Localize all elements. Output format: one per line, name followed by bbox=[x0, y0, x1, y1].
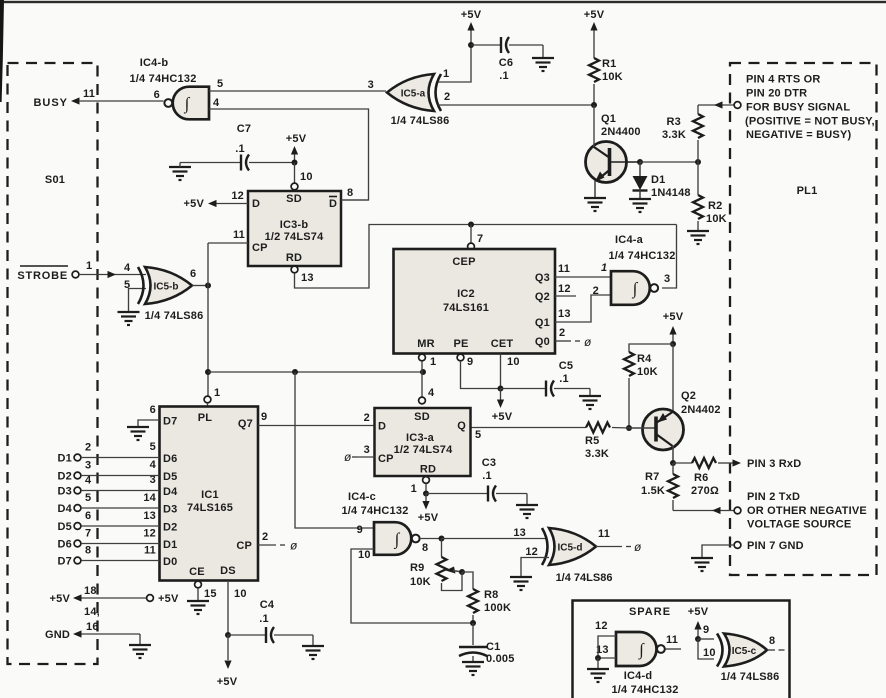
svg-text:R8: R8 bbox=[484, 589, 498, 601]
svg-text:9: 9 bbox=[703, 624, 709, 636]
svg-text:100K: 100K bbox=[484, 602, 511, 614]
svg-text:Q1: Q1 bbox=[601, 113, 616, 125]
wire clock bus vertical bbox=[207, 243, 209, 396]
nand gate IC4-c bbox=[374, 522, 420, 555]
wire D5 to IC1 bbox=[81, 525, 160, 527]
svg-text:D1: D1 bbox=[58, 453, 72, 465]
wire IC5-b output bbox=[192, 285, 208, 287]
svg-text:.1: .1 bbox=[259, 613, 269, 625]
svg-text:IC4-c: IC4-c bbox=[348, 491, 376, 503]
transistor Q1 2N4400 bbox=[586, 105, 641, 198]
wire node to R2 bbox=[697, 162, 699, 195]
wire ground stem C5 bbox=[589, 389, 591, 397]
svg-text:RD: RD bbox=[420, 464, 436, 476]
wire STROBE to IC5-b pin 4 bbox=[79, 274, 146, 276]
terminal PIN4 RTS bbox=[734, 102, 741, 109]
svg-text:D5: D5 bbox=[163, 471, 177, 483]
svg-text:9: 9 bbox=[467, 356, 473, 368]
svg-text:11: 11 bbox=[233, 229, 245, 241]
svg-text:FOR BUSY SIGNAL: FOR BUSY SIGNAL bbox=[746, 102, 850, 114]
resistor R6 bbox=[692, 458, 716, 468]
svg-text:SD: SD bbox=[414, 411, 430, 423]
wire to CEP pin 7 bbox=[470, 225, 472, 244]
wire Q3 pin11 to IC4-a pin1 bbox=[555, 276, 611, 278]
svg-text:.1: .1 bbox=[235, 143, 245, 155]
terminal D7 bbox=[74, 557, 81, 564]
wire C5 to ground bbox=[554, 388, 590, 390]
svg-text:16: 16 bbox=[86, 621, 99, 633]
R9 wiper arm bbox=[446, 567, 463, 574]
ground at CE bbox=[187, 601, 209, 614]
diode D1 1N4148 bbox=[633, 162, 648, 199]
wire D7 to ground bbox=[138, 420, 160, 427]
svg-text:14: 14 bbox=[143, 492, 156, 504]
svg-text:+5V: +5V bbox=[184, 198, 205, 210]
arrow +5V SD bbox=[291, 146, 298, 155]
svg-text:IC1: IC1 bbox=[201, 489, 219, 501]
wire CP pin3 stub bbox=[357, 456, 375, 458]
ground at C7 bbox=[169, 167, 191, 180]
wire +5V pin18 bbox=[82, 597, 147, 599]
wire CP pin2 stub bbox=[258, 544, 276, 546]
wire R4 to base bbox=[628, 378, 630, 428]
wire CE to ground bbox=[197, 588, 199, 601]
svg-text:5: 5 bbox=[150, 441, 156, 453]
resistor R9 (trimmer) bbox=[437, 557, 447, 581]
terminal STROBE bbox=[72, 271, 79, 278]
wire C1 to ground bbox=[472, 656, 474, 662]
ground at IC1 D7 bbox=[127, 427, 149, 440]
svg-text:D4: D4 bbox=[58, 503, 73, 515]
wire +5V down bbox=[672, 335, 674, 345]
wire to R7 bbox=[672, 463, 674, 474]
wire D4 to IC1 bbox=[81, 507, 160, 509]
svg-text:ø: ø bbox=[344, 450, 352, 464]
svg-text:13: 13 bbox=[558, 308, 571, 320]
arrow PIN3 RxD bbox=[733, 459, 742, 466]
svg-text:PL1: PL1 bbox=[797, 185, 818, 197]
svg-text:3.3K: 3.3K bbox=[662, 129, 686, 141]
wire phi dash IC3-a bbox=[352, 456, 357, 458]
svg-text:2: 2 bbox=[85, 442, 91, 454]
svg-text:1.5K: 1.5K bbox=[641, 485, 665, 497]
svg-text:1/4 74HC132: 1/4 74HC132 bbox=[129, 73, 196, 85]
pin 9 PE circle bbox=[457, 354, 464, 361]
junction wiper bbox=[459, 569, 465, 575]
pin 13 RD circle bbox=[291, 266, 298, 273]
arrow +5V D12 bbox=[208, 200, 217, 207]
svg-text:C7: C7 bbox=[237, 123, 251, 135]
wire IC5-d output bbox=[596, 546, 622, 548]
svg-text:1/4 74LS86: 1/4 74LS86 bbox=[556, 572, 613, 584]
junction reset/CEP bbox=[468, 222, 474, 228]
wire down to ground bbox=[542, 45, 544, 58]
svg-text:2N4400: 2N4400 bbox=[601, 126, 641, 138]
svg-text:D2: D2 bbox=[58, 471, 72, 483]
svg-text:D1: D1 bbox=[163, 539, 177, 551]
svg-text:18: 18 bbox=[84, 585, 97, 597]
svg-text:9: 9 bbox=[261, 411, 267, 423]
junction DS/C4 bbox=[225, 632, 231, 638]
svg-text:270Ω: 270Ω bbox=[691, 485, 719, 497]
xor gate IC5-a bbox=[387, 74, 441, 111]
capacitor C7 bbox=[241, 155, 249, 171]
svg-text:8: 8 bbox=[85, 545, 91, 557]
wire collector node to R3/R2 bbox=[640, 161, 698, 163]
pin 1 MR circle bbox=[419, 354, 426, 361]
wire to +5V arrow RD bbox=[425, 494, 427, 502]
svg-text:12: 12 bbox=[231, 190, 244, 202]
wire R7 down bbox=[672, 500, 674, 511]
svg-text:1/2 74LS74: 1/2 74LS74 bbox=[265, 231, 325, 243]
wire Q0 dash bbox=[575, 340, 580, 342]
junction Q1 collector node bbox=[637, 159, 643, 165]
svg-text:6: 6 bbox=[85, 510, 91, 522]
svg-text:RD: RD bbox=[286, 252, 302, 264]
wire horizontal to MR bbox=[208, 371, 423, 373]
svg-text:2: 2 bbox=[364, 412, 370, 424]
svg-text:10: 10 bbox=[234, 588, 247, 600]
wire node to C5 bbox=[501, 388, 546, 390]
svg-text:PIN 7 GND: PIN 7 GND bbox=[747, 540, 804, 552]
svg-text:9: 9 bbox=[357, 524, 363, 536]
wire +5V to node bbox=[470, 31, 472, 46]
svg-text:4: 4 bbox=[213, 97, 220, 109]
wire Q2 pin12 stub bbox=[555, 295, 576, 297]
xor gate IC5-c bbox=[717, 634, 767, 667]
wire Q7 pin9 to IC3-a D bbox=[258, 425, 375, 427]
connector S01 dashed box bbox=[8, 63, 98, 664]
wire R8 to node bbox=[472, 615, 474, 623]
wire to CP pin 11 bbox=[208, 242, 248, 244]
svg-text:R6: R6 bbox=[694, 472, 708, 484]
svg-text:D3: D3 bbox=[163, 504, 177, 516]
scan border top bar bbox=[4, 1, 886, 3]
wire +5V to R1 bbox=[593, 31, 595, 59]
resistor R5 bbox=[586, 423, 610, 433]
svg-text:2: 2 bbox=[559, 327, 565, 339]
resistor R4 bbox=[624, 352, 634, 376]
pin 1 RD circle bbox=[423, 477, 430, 484]
svg-text:PIN 20 DTR: PIN 20 DTR bbox=[746, 88, 807, 100]
wire R5 to base junction bbox=[612, 427, 629, 430]
svg-text:SPARE: SPARE bbox=[629, 606, 671, 618]
svg-text:1: 1 bbox=[430, 356, 436, 368]
ground at IC5-b pin5 bbox=[118, 312, 140, 325]
pin 10 SD circle bbox=[291, 183, 298, 190]
svg-text:1/4 74HC132: 1/4 74HC132 bbox=[341, 505, 408, 517]
ground at C4 bbox=[302, 646, 324, 659]
wire D3 to IC1 bbox=[81, 490, 160, 492]
svg-text:CET: CET bbox=[491, 338, 514, 350]
ground at C5 bbox=[579, 396, 601, 409]
svg-text:4: 4 bbox=[150, 459, 157, 471]
nand gate IC4-b bbox=[164, 87, 209, 120]
wire PE to +5V node bbox=[461, 361, 501, 389]
shift register IC1 74LS165 bbox=[160, 407, 259, 581]
wire Q1 pin13 to IC4-a pin2 bbox=[555, 295, 611, 322]
svg-text:Q2: Q2 bbox=[681, 390, 696, 402]
svg-text:5: 5 bbox=[85, 492, 91, 504]
svg-text:+5V: +5V bbox=[217, 676, 238, 688]
svg-text:1: 1 bbox=[214, 387, 220, 399]
svg-text:R2: R2 bbox=[708, 200, 722, 212]
wire to PIN2 TxD bbox=[673, 510, 734, 512]
capacitor C1 bbox=[459, 647, 487, 656]
svg-text:D4: D4 bbox=[163, 486, 178, 498]
svg-text:Q7: Q7 bbox=[238, 418, 253, 430]
resistor R2 bbox=[693, 195, 703, 219]
svg-text:Q1: Q1 bbox=[535, 317, 550, 329]
junction R8/C1 bbox=[470, 620, 476, 626]
wire R9 bottom to wiper bbox=[442, 572, 463, 591]
terminal PIN7 GND bbox=[734, 542, 741, 549]
wire IC5-c output dash bbox=[779, 649, 785, 651]
svg-text:5: 5 bbox=[217, 78, 223, 90]
svg-text:PE: PE bbox=[453, 338, 468, 350]
svg-text:13: 13 bbox=[143, 510, 156, 522]
wire MR to SD bbox=[421, 361, 423, 397]
svg-text:Q0: Q0 bbox=[535, 336, 550, 348]
svg-text:+5V: +5V bbox=[286, 133, 307, 145]
svg-text:S01: S01 bbox=[45, 174, 65, 186]
wire +5V to Q2 emitter bbox=[672, 344, 674, 411]
ground at S01 GND bbox=[129, 645, 151, 658]
ground at IC4-d bbox=[587, 669, 609, 682]
svg-text:ø: ø bbox=[634, 540, 642, 554]
terminal PIN2 TxD bbox=[734, 507, 741, 514]
transistor Q2 2N4402 bbox=[629, 409, 684, 463]
svg-text:1/2 74LS74: 1/2 74LS74 bbox=[394, 444, 454, 456]
STROBE overline bbox=[20, 265, 68, 267]
terminal +5V pin18 bbox=[147, 595, 154, 602]
resistor R8 bbox=[468, 589, 478, 613]
resistor R3 bbox=[693, 114, 703, 138]
arrow PIN2 TxD bbox=[712, 507, 721, 514]
svg-text:3: 3 bbox=[664, 273, 670, 285]
svg-text:D: D bbox=[329, 198, 337, 210]
svg-text:3: 3 bbox=[364, 444, 370, 456]
svg-text:R9: R9 bbox=[410, 562, 424, 574]
pin 15 CE circle bbox=[195, 581, 202, 588]
svg-text:12: 12 bbox=[143, 528, 156, 540]
wire node to C6 bbox=[471, 44, 500, 46]
junction IC5-b out bbox=[205, 283, 211, 289]
svg-text:1: 1 bbox=[86, 260, 92, 272]
svg-text:12: 12 bbox=[558, 283, 571, 295]
svg-text:10: 10 bbox=[507, 356, 520, 368]
svg-text:C5: C5 bbox=[559, 360, 573, 372]
svg-text:C1: C1 bbox=[486, 641, 500, 653]
svg-text:IC5-c: IC5-c bbox=[732, 646, 757, 657]
svg-text:+5V: +5V bbox=[584, 9, 605, 21]
arrow +5V DS bbox=[224, 661, 231, 670]
connector PL1 dashed box bbox=[730, 63, 877, 575]
svg-text:BUSY: BUSY bbox=[33, 97, 68, 109]
arrow +5V R1 bbox=[590, 22, 597, 31]
svg-text:13: 13 bbox=[301, 272, 314, 284]
junction C6 node bbox=[468, 42, 474, 48]
wire IC4-b pin4 to IC3-b pin8 bbox=[209, 109, 369, 200]
svg-text:CE: CE bbox=[189, 566, 205, 578]
svg-text:D2: D2 bbox=[163, 522, 177, 534]
svg-text:CP: CP bbox=[378, 453, 394, 465]
svg-text:0.005: 0.005 bbox=[486, 653, 515, 665]
arrow GND S01 bbox=[73, 630, 82, 637]
capacitor C3 bbox=[488, 486, 496, 502]
svg-text:2: 2 bbox=[444, 91, 450, 103]
wire R1 to node bbox=[593, 84, 595, 105]
svg-text:DS: DS bbox=[220, 565, 236, 577]
svg-text:CEP: CEP bbox=[452, 256, 475, 268]
wire IC5-d pin12 to ground bbox=[521, 558, 549, 578]
svg-text:STROBE: STROBE bbox=[17, 270, 68, 282]
svg-text:7: 7 bbox=[85, 528, 91, 540]
wire IC4-b pin5 to IC5-a pin3 bbox=[209, 90, 386, 92]
svg-text:D7: D7 bbox=[163, 416, 177, 428]
svg-text:R4: R4 bbox=[637, 353, 652, 365]
svg-text:8: 8 bbox=[347, 187, 353, 199]
svg-text:3: 3 bbox=[85, 460, 91, 472]
svg-text:1/4 74LS86: 1/4 74LS86 bbox=[391, 115, 450, 127]
counter IC2 74LS161 bbox=[394, 249, 556, 354]
wire R6 to arrow bbox=[718, 462, 734, 464]
svg-text:(POSITIVE = NOT BUSY,: (POSITIVE = NOT BUSY, bbox=[745, 116, 875, 128]
svg-text:1/4 74HC132: 1/4 74HC132 bbox=[608, 250, 675, 262]
svg-text:5: 5 bbox=[475, 429, 481, 441]
arrow STROBE bbox=[108, 271, 117, 278]
junction IC4-d inputs bbox=[595, 655, 601, 661]
wire to R9 bbox=[441, 539, 443, 558]
svg-text:MR: MR bbox=[417, 338, 435, 350]
ground at C3 bbox=[516, 505, 538, 518]
wire C7 to +5V node bbox=[249, 162, 295, 164]
svg-text:1/4 74HC132: 1/4 74HC132 bbox=[611, 684, 678, 696]
wire D7 to IC1 bbox=[81, 560, 160, 562]
svg-text:10K: 10K bbox=[602, 71, 623, 83]
arrow +5V RD bbox=[422, 501, 429, 510]
svg-text:3: 3 bbox=[368, 79, 374, 91]
svg-text:6: 6 bbox=[190, 268, 196, 280]
svg-text:CP: CP bbox=[236, 540, 252, 552]
svg-text:D: D bbox=[252, 198, 260, 210]
pin 1 PL circle bbox=[204, 396, 211, 403]
junction C7/+5V/SD node bbox=[292, 160, 298, 166]
wire IC4-d output bbox=[666, 648, 682, 650]
svg-text:74LS165: 74LS165 bbox=[187, 502, 233, 514]
svg-text:Q3: Q3 bbox=[535, 272, 550, 284]
svg-text:.1: .1 bbox=[499, 70, 509, 82]
wire ground stem C7 bbox=[179, 163, 181, 168]
svg-text:R5: R5 bbox=[585, 435, 599, 447]
svg-text:IC2: IC2 bbox=[457, 288, 475, 300]
svg-text:PL: PL bbox=[198, 412, 213, 424]
svg-text:12: 12 bbox=[525, 546, 538, 558]
xor gate IC5-d bbox=[542, 528, 596, 565]
arrow +5V PE/CET bbox=[497, 400, 504, 409]
wire BUSY to IC4-b pin 6 bbox=[79, 100, 164, 102]
svg-text:10K: 10K bbox=[410, 576, 431, 588]
wire wiper to R8 bbox=[462, 572, 473, 589]
wire IC5-c output bbox=[767, 649, 775, 651]
arrow +5V Q2 bbox=[669, 326, 676, 335]
ground at D1 bbox=[629, 199, 651, 212]
svg-text:5: 5 bbox=[124, 279, 130, 291]
wire RD pin13 reset line bbox=[295, 225, 677, 289]
svg-text:IC4-b: IC4-b bbox=[140, 57, 169, 69]
wire DS down bbox=[227, 581, 229, 636]
wire IC4-a output to reset line bbox=[662, 225, 677, 289]
svg-text:C3: C3 bbox=[482, 457, 496, 469]
wire IC5-b pin5 to ground bbox=[129, 289, 147, 313]
wire GND bbox=[82, 633, 141, 635]
svg-text:D0: D0 bbox=[163, 556, 177, 568]
svg-text:11: 11 bbox=[144, 545, 156, 557]
wire C3 to ground bbox=[496, 493, 527, 495]
wire to ground IC4-d bbox=[597, 658, 599, 669]
svg-text:D7: D7 bbox=[58, 556, 72, 568]
svg-text:2N4402: 2N4402 bbox=[681, 404, 721, 416]
wire RD down bbox=[425, 484, 427, 494]
svg-text:OR OTHER NEGATIVE: OR OTHER NEGATIVE bbox=[747, 505, 867, 517]
svg-text:74LS161: 74LS161 bbox=[443, 302, 489, 314]
wire IC5-a pin1 to +5V/C6 node bbox=[438, 45, 471, 82]
ground at Q1 emitter bbox=[584, 198, 606, 211]
wire PL stem bbox=[207, 403, 209, 407]
svg-text:15: 15 bbox=[204, 588, 217, 600]
svg-text:1N4148: 1N4148 bbox=[651, 187, 691, 199]
pin 7 CEP circle bbox=[468, 243, 475, 250]
junction MR/SD bbox=[420, 369, 426, 375]
wire ground stem C4 bbox=[312, 635, 314, 646]
svg-text:6: 6 bbox=[150, 404, 156, 416]
svg-text:10: 10 bbox=[358, 549, 371, 561]
svg-text:ø: ø bbox=[290, 539, 298, 553]
svg-text:PIN 3 RxD: PIN 3 RxD bbox=[747, 458, 801, 470]
svg-text:IC3-a: IC3-a bbox=[406, 432, 435, 444]
terminal D4 bbox=[74, 505, 81, 512]
svg-text:SD: SD bbox=[286, 193, 302, 205]
wire D2 to IC1 bbox=[81, 475, 160, 477]
wire to C4 bbox=[228, 634, 265, 636]
resistor R7 bbox=[668, 474, 678, 498]
nand gate IC4-d bbox=[616, 632, 665, 666]
svg-text:7: 7 bbox=[477, 233, 483, 245]
svg-text:D1: D1 bbox=[651, 174, 665, 186]
ground at C6 bbox=[532, 58, 554, 71]
junction IC5-c pin9 bbox=[695, 636, 701, 642]
arrow BUSY bbox=[71, 97, 80, 104]
wire Q-bar pin 8 bbox=[341, 199, 369, 201]
arrow to R3 bbox=[714, 101, 723, 108]
wire D1 to IC1 bbox=[81, 457, 160, 459]
wire R3 to PL1 pin4 bbox=[698, 104, 734, 106]
svg-text:11: 11 bbox=[83, 88, 95, 100]
junction RD/C3 bbox=[423, 491, 429, 497]
svg-text:D: D bbox=[378, 421, 386, 433]
capacitor C4 bbox=[266, 627, 274, 643]
wire +5V arrow stem bbox=[294, 155, 296, 163]
svg-text:4: 4 bbox=[428, 387, 435, 399]
wire CET down bbox=[500, 354, 502, 389]
svg-text:1/4 74LS86: 1/4 74LS86 bbox=[721, 671, 780, 683]
junction IC4-c out bbox=[439, 536, 445, 542]
svg-text:R3: R3 bbox=[667, 116, 681, 128]
svg-text:D5: D5 bbox=[58, 521, 72, 533]
terminal D5 bbox=[74, 523, 81, 530]
capacitor C6 bbox=[501, 37, 509, 53]
svg-text:11: 11 bbox=[558, 263, 570, 275]
